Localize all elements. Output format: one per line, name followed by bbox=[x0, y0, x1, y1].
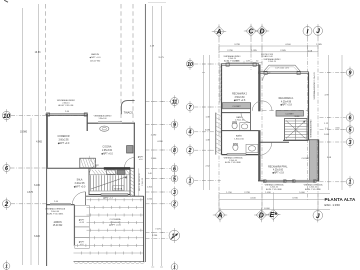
svg-text:1.285: 1.285 bbox=[251, 50, 257, 52]
house mid wall bbox=[48, 167, 135, 169]
door arc hall 2 bbox=[241, 113, 251, 123]
bottom dim chain 1 bbox=[219, 192, 330, 194]
closet recamara1 bbox=[276, 111, 304, 117]
svg-text:3.40x2.95: 3.40x2.95 bbox=[74, 183, 85, 185]
dim text 7.475 right bbox=[155, 229, 161, 231]
top mini dim chain 3 bbox=[228, 61, 262, 64]
room label JARDIN top bbox=[90, 53, 102, 62]
svg-text:D: D bbox=[259, 213, 264, 220]
svg-text:3.706: 3.706 bbox=[292, 198, 298, 200]
svg-text:I: I bbox=[307, 28, 309, 35]
grid bubble 3 leftplan-right bbox=[146, 186, 178, 197]
grid row 9 rightplan-right bbox=[320, 67, 354, 79]
svg-text:.60: .60 bbox=[256, 61, 259, 63]
dim text 4.19 right bbox=[150, 46, 155, 48]
bath divider wall 2 bbox=[222, 130, 259, 132]
svg-text:11.75: 11.75 bbox=[158, 57, 164, 59]
stove oval bbox=[100, 126, 109, 131]
svg-text:◆NPT +0.0: ◆NPT +0.0 bbox=[58, 142, 70, 145]
toilet bath1 bbox=[232, 122, 237, 129]
svg-text:RECAMARA 2: RECAMARA 2 bbox=[232, 93, 248, 96]
grid column C bbox=[244, 24, 258, 70]
dimension chain line right B bbox=[161, 6, 163, 266]
svg-text:+0.15: +0.15 bbox=[79, 222, 85, 224]
svg-text:8.000: 8.000 bbox=[264, 208, 270, 210]
svg-text:1.10x5.50: 1.10x5.50 bbox=[142, 178, 144, 186]
cochera paving pattern bbox=[74, 198, 144, 254]
stair right wall cavity bbox=[130, 168, 134, 196]
recamara ppal top wall bbox=[259, 141, 290, 143]
grid bubble 6 left bbox=[3, 162, 46, 174]
grid row 5 rightplan-right bbox=[320, 124, 354, 136]
svg-text:5.000: 5.000 bbox=[299, 192, 305, 194]
stairs label bbox=[294, 116, 300, 118]
cochera bottom edge bbox=[74, 261, 145, 263]
svg-text:5: 5 bbox=[173, 176, 176, 182]
vertical window note 2 bbox=[309, 119, 312, 138]
svg-text:1.700: 1.700 bbox=[226, 192, 232, 194]
comedor top wall window bbox=[46, 111, 87, 116]
svg-text:1: 1 bbox=[189, 179, 192, 185]
entry door arc bbox=[72, 192, 85, 205]
svg-text:6: 6 bbox=[173, 166, 176, 172]
room label SALA bbox=[74, 179, 86, 189]
grid bubble 8 leftplan-right bbox=[146, 144, 178, 155]
staircase left plan bbox=[89, 156, 130, 200]
dim text 6.180 bbox=[34, 185, 40, 187]
rightplan bottom wall bbox=[258, 181, 319, 182]
grid bubble 1 bottom leftplan-right bbox=[171, 261, 178, 270]
cocina top window text bbox=[94, 115, 112, 120]
room label BANO 1 bbox=[235, 116, 245, 122]
svg-text:2.190: 2.190 bbox=[151, 135, 157, 137]
grid column A bbox=[212, 24, 226, 212]
grid row 10 rightplan-left bbox=[186, 58, 221, 70]
svg-text:2.945: 2.945 bbox=[280, 50, 286, 52]
svg-text:ESC. 1:150: ESC. 1:150 bbox=[325, 203, 341, 207]
walkway wall bbox=[73, 205, 75, 245]
svg-text:ALUM. Y VID. 6MM.: ALUM. Y VID. 6MM. bbox=[305, 188, 321, 191]
svg-text:1: 1 bbox=[349, 180, 352, 186]
svg-text:1.075: 1.075 bbox=[246, 61, 251, 63]
svg-text:10: 10 bbox=[3, 113, 11, 120]
rightplan bottom-left wall bbox=[222, 154, 259, 156]
grid row 7 rightplan-left bbox=[186, 101, 221, 113]
stairs bottom wall bbox=[283, 139, 309, 141]
svg-text:10.980: 10.980 bbox=[20, 131, 28, 133]
svg-text:PATIO DE SERVICIO: PATIO DE SERVICIO bbox=[138, 172, 141, 191]
svg-text:4.675: 4.675 bbox=[27, 192, 33, 194]
closet ppal vertical bbox=[301, 140, 317, 181]
cochera top wall bbox=[86, 195, 144, 197]
vertical window note bbox=[313, 72, 316, 99]
svg-text:126.47 M2: 126.47 M2 bbox=[90, 60, 101, 62]
room label COCHERA bbox=[109, 218, 121, 227]
grid column J bbox=[314, 24, 323, 212]
svg-text:A: A bbox=[215, 29, 221, 36]
grid row 1 rightplan-right bbox=[320, 176, 354, 188]
svg-text:4.25x3.60: 4.25x3.60 bbox=[273, 169, 284, 171]
sink bath2 bbox=[246, 144, 258, 152]
comedor-cocina divider wall bbox=[86, 114, 88, 131]
svg-text:BAÑO: BAÑO bbox=[236, 135, 242, 138]
svg-text:1.960: 1.960 bbox=[151, 158, 157, 160]
svg-text:16.83: 16.83 bbox=[35, 52, 41, 54]
dim text 1.296 right bbox=[152, 235, 158, 237]
window text bath2 bbox=[224, 157, 244, 165]
svg-text:ALUM. Y VID. 6MM.: ALUM. Y VID. 6MM. bbox=[47, 213, 64, 216]
window bottom text2 bbox=[304, 183, 324, 191]
left dim chain bbox=[202, 55, 211, 190]
cocina top wall bbox=[87, 122, 135, 123]
svg-text:CLOSET: CLOSET bbox=[301, 158, 310, 160]
svg-text:VENTANA ALUMINIO 1.20x1.20: VENTANA ALUMINIO 1.20x1.20 bbox=[313, 72, 316, 99]
right lot wall bbox=[144, 4, 146, 262]
svg-text:1: 1 bbox=[173, 265, 176, 270]
grid row 2 rightplan-left bbox=[186, 144, 221, 156]
svg-text:4.330: 4.330 bbox=[157, 141, 163, 143]
corner mark top-left bbox=[4, 0, 8, 2]
bottom dim chain 2 bbox=[219, 198, 330, 200]
svg-text:ALUM. Y VID. 6M.: ALUM. Y VID. 6M. bbox=[58, 104, 74, 107]
property boundary dashed right 2 bbox=[132, 4, 134, 122]
svg-text:SUBE: SUBE bbox=[294, 116, 300, 118]
svg-text:1.90x1.60: 1.90x1.60 bbox=[98, 118, 106, 120]
svg-text:COMEDOR: COMEDOR bbox=[58, 136, 70, 138]
dim text 4.675 bbox=[27, 192, 33, 194]
front wall bbox=[46, 201, 75, 205]
svg-text:4.160: 4.160 bbox=[285, 44, 291, 46]
dim text 16.83 bbox=[35, 52, 41, 54]
bottom dim ticks bbox=[219, 192, 318, 211]
room label RECAMARA 2 bbox=[232, 93, 248, 103]
svg-text:3.080: 3.080 bbox=[205, 130, 211, 132]
cochera right wall bbox=[143, 196, 145, 262]
svg-text:COCINA: COCINA bbox=[103, 146, 112, 149]
svg-text:1.065: 1.065 bbox=[324, 134, 330, 136]
svg-text:9: 9 bbox=[173, 122, 176, 128]
svg-text:2.95x3.60: 2.95x3.60 bbox=[102, 150, 113, 152]
grid row 3 rightplan-right bbox=[320, 136, 354, 148]
svg-text:RECAMARA 1: RECAMARA 1 bbox=[279, 97, 295, 100]
rightplan left wall bbox=[220, 64, 222, 155]
top dim chain 2 bbox=[219, 50, 318, 52]
dim text 4.965 bbox=[36, 142, 42, 144]
grid bubble 11 leftplan-right bbox=[146, 95, 179, 107]
svg-text:3.50x3.60: 3.50x3.60 bbox=[234, 97, 245, 99]
svg-text:1: 1 bbox=[5, 264, 8, 269]
grid column A bottom bbox=[213, 208, 227, 222]
room label COCINA bbox=[101, 146, 113, 156]
room label JARDIN bottom bbox=[53, 221, 63, 227]
svg-text:◆NPT +2.8: ◆NPT +2.8 bbox=[272, 171, 284, 174]
svg-text:4.100: 4.100 bbox=[250, 198, 256, 200]
npt marker cocina bbox=[138, 156, 144, 162]
property boundary dashed right 1 bbox=[120, 4, 122, 122]
dim text 4.330 right bbox=[157, 141, 163, 143]
svg-text:J: J bbox=[316, 213, 320, 220]
proyeccion volado text bbox=[261, 54, 274, 58]
grid column D bbox=[255, 24, 269, 212]
service strip bbox=[138, 168, 144, 196]
svg-text:◆NPT +0.0: ◆NPT +0.0 bbox=[74, 185, 86, 188]
svg-text:2: 2 bbox=[172, 202, 176, 208]
dim text small rows bbox=[147, 173, 153, 201]
dimension chain line left C bbox=[38, 4, 40, 265]
svg-text:1.296: 1.296 bbox=[152, 235, 158, 237]
svg-text:3.798: 3.798 bbox=[234, 44, 240, 46]
rightplan top wall right section bbox=[259, 71, 309, 74]
grid bubble 6 leftplan-right bbox=[146, 163, 178, 174]
svg-text:D: D bbox=[259, 29, 264, 36]
svg-text:7.475: 7.475 bbox=[155, 229, 161, 231]
staircase right plan bbox=[285, 119, 308, 141]
top edge tick bbox=[148, 1, 166, 3]
svg-text:◆NPT +0.0: ◆NPT +0.0 bbox=[101, 152, 113, 155]
svg-text:4.25x4.99: 4.25x4.99 bbox=[281, 101, 292, 103]
bath2 wall hatch bbox=[216, 113, 222, 155]
right dim chain bbox=[324, 55, 344, 190]
cocina right wall bbox=[133, 123, 135, 197]
rightplan top wall left section bbox=[222, 63, 259, 66]
svg-text:J: J bbox=[316, 28, 320, 35]
window band bottom 2 bbox=[293, 180, 317, 183]
svg-text:E*: E* bbox=[270, 212, 278, 219]
room label RECAMARA 1 bbox=[279, 97, 295, 107]
bottom dim chain 3 bbox=[219, 208, 330, 210]
grid row 6 rightplan-right bbox=[320, 112, 354, 124]
svg-text:1.060: 1.060 bbox=[147, 199, 153, 201]
window band bottom 1 bbox=[264, 180, 287, 183]
svg-text:ALUM. Y VID. 6MM.: ALUM. Y VID. 6MM. bbox=[266, 188, 282, 191]
rightplan right wall upper bbox=[308, 73, 310, 141]
grid bubble 5 leftplan-right bbox=[146, 173, 178, 184]
dimension chain line left A bbox=[22, 8, 24, 265]
balcony door arc bbox=[263, 73, 271, 81]
dimension chain line right A bbox=[152, 6, 154, 266]
svg-text:6.920: 6.920 bbox=[34, 236, 40, 238]
closet recamara2 bbox=[223, 103, 251, 109]
svg-text:VOLADO 0.60: VOLADO 0.60 bbox=[261, 55, 273, 58]
svg-text:0.005: 0.005 bbox=[335, 128, 339, 130]
room label BANO 2 bbox=[234, 135, 244, 141]
svg-text:4: 4 bbox=[188, 130, 192, 136]
svg-text:10: 10 bbox=[187, 62, 193, 68]
window text top2 bbox=[264, 58, 282, 63]
svg-text:2.798: 2.798 bbox=[244, 192, 250, 194]
grid bubble 1 leftplan-right bbox=[146, 228, 180, 243]
dim text 6.920 bbox=[34, 236, 40, 238]
grid bubble 10 left bbox=[2, 109, 87, 122]
property boundary dashed left bbox=[45, 4, 47, 115]
grid column D bottom bbox=[254, 208, 268, 222]
grid bubble 1 left partial bbox=[3, 260, 10, 270]
svg-text:4.965: 4.965 bbox=[36, 142, 42, 144]
svg-text:◆NPT +2.8: ◆NPT +2.8 bbox=[234, 99, 246, 102]
entry walkway pads bbox=[75, 206, 90, 249]
front window text bbox=[45, 208, 66, 216]
hall wall bbox=[250, 103, 252, 131]
svg-text:3.60x2.95: 3.60x2.95 bbox=[58, 139, 69, 141]
svg-text:A: A bbox=[216, 213, 222, 220]
chain ticks right bbox=[151, 102, 163, 268]
cocina door arc bbox=[125, 158, 135, 168]
grid column E bottom bbox=[266, 207, 280, 221]
tinaco bbox=[121, 101, 134, 115]
comedor top window text bbox=[57, 99, 76, 107]
sink bath1 bbox=[240, 123, 251, 131]
dim text 2.190 right bbox=[151, 135, 157, 137]
svg-text:1.20x1.20: 1.20x1.20 bbox=[268, 61, 276, 63]
svg-text:2.790: 2.790 bbox=[227, 50, 233, 52]
svg-text:1.80x1.50: 1.80x1.50 bbox=[234, 138, 244, 140]
grid column I bbox=[303, 24, 312, 200]
room label RECAMARA PPAL bbox=[268, 165, 288, 174]
svg-text:2: 2 bbox=[188, 148, 192, 154]
window bottom text1 bbox=[265, 183, 285, 191]
svg-text:◆NPT +0.0: ◆NPT +0.0 bbox=[90, 56, 102, 59]
svg-text:SALA: SALA bbox=[77, 179, 83, 182]
center wall D bbox=[258, 65, 260, 182]
svg-text:ALUM. Y VID. 6MM.: ALUM. Y VID. 6MM. bbox=[225, 161, 241, 164]
svg-text:CLOSET: CLOSET bbox=[285, 114, 294, 116]
top dim ticks bbox=[219, 45, 318, 54]
svg-text:JARDIN: JARDIN bbox=[53, 221, 62, 224]
svg-text:1.075 1.545 1.075: 1.075 1.545 1.075 bbox=[275, 68, 289, 70]
grid column J bottom bbox=[313, 208, 323, 222]
window band bath2 bbox=[227, 154, 246, 156]
dim text 11.75 right bbox=[158, 57, 164, 59]
grid bubble 2 leftplan-right bbox=[146, 198, 178, 209]
left lot wall bbox=[46, 114, 48, 266]
grid row 1 rightplan-left bbox=[186, 175, 221, 187]
svg-text:15.40 M2: 15.40 M2 bbox=[53, 225, 63, 227]
svg-text:ALUM. Y VID. 6MM.: ALUM. Y VID. 6MM. bbox=[224, 60, 240, 63]
half bath block bbox=[80, 158, 97, 168]
svg-text:◆NPT +1.4: ◆NPT +1.4 bbox=[103, 196, 112, 199]
svg-text:1.085: 1.085 bbox=[316, 44, 322, 46]
svg-text:PLANTA ALTA: PLANTA ALTA bbox=[325, 197, 356, 202]
svg-text:3: 3 bbox=[349, 140, 352, 146]
door arc hall 1 bbox=[252, 101, 272, 111]
top dim chain 1 bbox=[219, 44, 323, 46]
svg-text:BODEGA: BODEGA bbox=[114, 187, 123, 190]
svg-text:1.355: 1.355 bbox=[147, 187, 153, 189]
svg-text:8: 8 bbox=[173, 148, 176, 154]
svg-text:1.430: 1.430 bbox=[265, 192, 271, 194]
svg-text:3: 3 bbox=[173, 190, 176, 196]
toilet bath2 bbox=[233, 143, 238, 150]
svg-text:VENTANA ALUMINIO: VENTANA ALUMINIO bbox=[57, 99, 76, 102]
svg-text:2: 2 bbox=[4, 201, 9, 208]
svg-text:RECAMARA PPAL.: RECAMARA PPAL. bbox=[268, 165, 288, 168]
window text top1 bbox=[224, 55, 242, 63]
svg-text:9: 9 bbox=[349, 70, 352, 76]
door arc ppal bbox=[259, 142, 272, 155]
svg-text:JARDIN: JARDIN bbox=[91, 53, 99, 56]
dimension chain line left B bbox=[30, 118, 32, 265]
dim text 10.980 bbox=[20, 131, 28, 133]
grid row 4 rightplan-left bbox=[186, 126, 221, 138]
grid bubble 9 leftplan-right bbox=[146, 119, 178, 130]
title PLANTA ALTA bbox=[325, 197, 356, 207]
recamara1 bottom wall bbox=[262, 110, 309, 112]
svg-text:◆NPT +2.8: ◆NPT +2.8 bbox=[280, 104, 292, 107]
svg-text:TINACO: TINACO bbox=[124, 111, 134, 114]
bath divider wall 1 bbox=[222, 112, 251, 114]
svg-text:COCHERA: COCHERA bbox=[110, 218, 121, 221]
room label COMEDOR bbox=[58, 136, 70, 145]
dim text 1.960 right bbox=[151, 158, 157, 160]
bay window projection bbox=[263, 65, 302, 73]
fridge box bbox=[127, 146, 133, 153]
comedor left wall bbox=[47, 114, 49, 169]
svg-text:11: 11 bbox=[172, 100, 178, 106]
svg-text:6.180: 6.180 bbox=[34, 185, 40, 187]
grid bubble 2 left bbox=[3, 198, 47, 210]
rightplan right wall lower bbox=[309, 140, 319, 182]
svg-text:CLOSET: CLOSET bbox=[232, 106, 241, 108]
svg-text:VENTANA ALUMINIO: VENTANA ALUMINIO bbox=[309, 119, 312, 138]
